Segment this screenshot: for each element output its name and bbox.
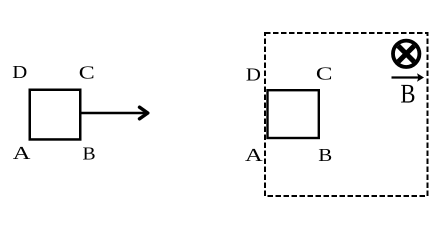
svg-text:D: D: [246, 64, 261, 84]
svg-text:C: C: [316, 64, 333, 84]
svg-text:B: B: [400, 78, 415, 108]
svg-text:B: B: [83, 144, 96, 164]
svg-text:C: C: [79, 62, 95, 82]
svg-text:A: A: [13, 143, 32, 163]
svg-text:D: D: [12, 62, 27, 82]
svg-text:B: B: [318, 145, 332, 165]
svg-text:A: A: [245, 145, 264, 165]
